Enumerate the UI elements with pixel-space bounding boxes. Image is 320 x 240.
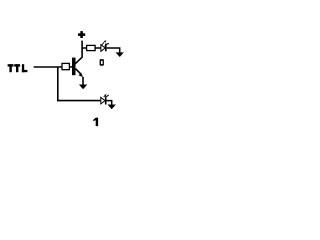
transistor Q1 emitter (76, 69, 82, 75)
transistor Q1 collector (75, 41, 82, 65)
resistor R2 (LED 0 resistor) (87, 45, 96, 50)
wire TTL input to base resistor (34, 66, 62, 68)
node label 1 (93, 118, 98, 127)
power +V (78, 31, 85, 38)
wire collector node to resistor R2 (82, 47, 87, 49)
resistor R1 (base resistor) (62, 63, 69, 69)
ground (LED 0) (116, 52, 124, 57)
wire LED 0 to ground (107, 48, 120, 53)
wire emitter to ground (82, 77, 84, 85)
wire LED 1 to ground (107, 101, 112, 105)
ground (LED 1) (108, 105, 116, 110)
LED D1 (101, 94, 109, 104)
wire resistor R2 to LED 0 (95, 47, 101, 49)
transistor Q1 base bar (72, 58, 76, 76)
wire junction down and to LED 1 (58, 67, 102, 101)
wire resistor to base (69, 66, 72, 68)
LED D0 (101, 40, 109, 51)
node TTL input label (8, 64, 28, 72)
ground (emitter) (79, 85, 87, 90)
node label 0 (100, 59, 104, 66)
